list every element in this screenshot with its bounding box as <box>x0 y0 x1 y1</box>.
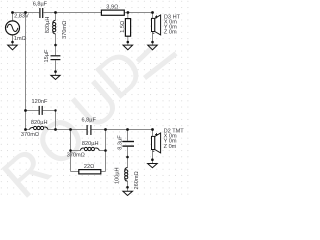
svg-text:Z 0m: Z 0m <box>164 144 177 150</box>
svg-text:820µH: 820µH <box>45 17 51 34</box>
svg-text:120nF: 120nF <box>32 99 48 105</box>
svg-text:1,5Ω: 1,5Ω <box>120 21 126 33</box>
svg-text:8,3µF: 8,3µF <box>118 135 124 150</box>
svg-text:3,9Ω: 3,9Ω <box>106 4 118 10</box>
svg-text:820µH: 820µH <box>82 141 99 147</box>
svg-text:370mΩ: 370mΩ <box>62 21 68 39</box>
svg-text:100µH: 100µH <box>115 167 121 184</box>
svg-text:370mΩ: 370mΩ <box>67 152 85 158</box>
svg-text:Z 0m: Z 0m <box>164 30 177 36</box>
svg-text:6,8µF: 6,8µF <box>33 1 48 7</box>
svg-text:15µF: 15µF <box>44 49 50 62</box>
svg-text:820µH: 820µH <box>31 120 48 126</box>
svg-text:2,83V: 2,83V <box>14 13 29 19</box>
svg-text:22Ω: 22Ω <box>84 164 94 170</box>
svg-text:260mΩ: 260mΩ <box>134 171 140 189</box>
svg-text:1mΩ: 1mΩ <box>14 36 26 42</box>
svg-text:6,8µF: 6,8µF <box>82 118 97 124</box>
svg-text:370mΩ: 370mΩ <box>21 132 39 138</box>
